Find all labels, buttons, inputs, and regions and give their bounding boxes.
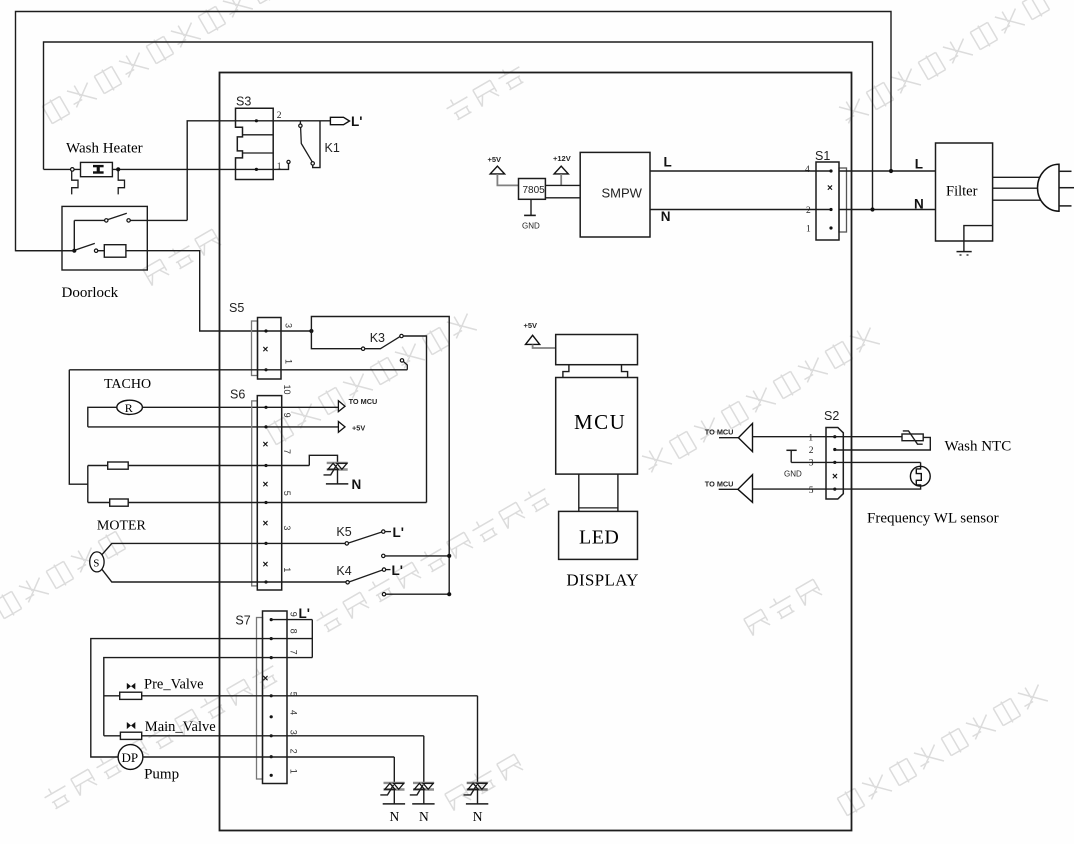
- K4 NC contact: [382, 593, 385, 596]
- svg-text:N: N: [661, 209, 671, 224]
- svg-text:2: 2: [809, 446, 814, 456]
- svg-text:Doorlock: Doorlock: [62, 285, 119, 301]
- pre valve coil: [120, 692, 142, 699]
- S7 pin 9: [270, 618, 273, 621]
- svg-text:1: 1: [289, 769, 299, 774]
- S7 pin 1: [270, 774, 273, 777]
- S6 pin 3: [264, 542, 267, 545]
- S7 pin 5: [270, 694, 273, 697]
- doorlock top switch: [105, 219, 108, 222]
- svg-text:S7: S7: [235, 614, 250, 628]
- node heater left: [71, 168, 75, 172]
- S2 pin 2: [833, 448, 836, 451]
- svg-text:4: 4: [289, 710, 299, 715]
- wire N SMPW to S1: [650, 209, 831, 211]
- S1 pin 1: [829, 226, 832, 229]
- svg-text:8: 8: [289, 629, 299, 634]
- S6 pin 10: [264, 406, 267, 409]
- wire tacho bottom: [88, 426, 339, 428]
- node K5 NC rail: [447, 554, 451, 558]
- svg-text:Pre_Valve: Pre_Valve: [144, 676, 204, 692]
- svg-text:K5: K5: [336, 525, 351, 539]
- svg-text:5: 5: [282, 491, 292, 496]
- svg-text:3: 3: [282, 525, 292, 530]
- WL sensor: [920, 462, 922, 466]
- svg-text:1: 1: [277, 162, 282, 172]
- filter inner notch: [964, 226, 993, 241]
- pump DP: [118, 745, 143, 770]
- wire 5V to 7805: [497, 174, 518, 185]
- svg-text:K3: K3: [370, 331, 385, 345]
- svg-text:DISPLAY: DISPLAY: [566, 571, 638, 590]
- S6 pin 5: [264, 501, 267, 504]
- svg-text:5: 5: [809, 486, 814, 496]
- wire pin3 row: [791, 461, 920, 463]
- svg-text:K1: K1: [325, 141, 340, 155]
- svg-text:3: 3: [289, 730, 299, 735]
- LED box: [559, 511, 638, 559]
- node heater right: [116, 167, 120, 171]
- wire L SMPW to S1: [650, 170, 831, 172]
- svg-text:Main_Valve: Main_Valve: [145, 719, 216, 735]
- GND stub S2 pin3: [786, 449, 796, 451]
- svg-text:9: 9: [289, 612, 299, 617]
- valve symbol Main_Valve: [127, 722, 131, 729]
- wire tacho loop: [88, 407, 117, 427]
- NTC body: [902, 434, 923, 441]
- S3 pin1 stub: [273, 164, 288, 170]
- S3 pin 1: [255, 168, 258, 171]
- wire doorlock coil to S5 pin3: [126, 251, 312, 331]
- heater terminal stub left: [72, 171, 78, 194]
- svg-text:×: ×: [263, 674, 269, 685]
- svg-text:3: 3: [284, 323, 294, 328]
- svg-text:+12V: +12V: [553, 154, 571, 163]
- S2 pin 3: [833, 461, 836, 464]
- svg-text:1: 1: [282, 567, 292, 572]
- svg-text:+5V: +5V: [488, 155, 502, 164]
- wire winding 1: [88, 465, 309, 467]
- svg-text:GND: GND: [522, 222, 540, 231]
- svg-text:1: 1: [806, 225, 811, 235]
- wire motor top lead: [102, 543, 348, 554]
- svg-text:S2: S2: [824, 409, 839, 423]
- doorlock box: [62, 206, 147, 270]
- svg-text:L': L': [393, 525, 404, 540]
- svg-text:TO MCU: TO MCU: [349, 397, 378, 406]
- S7 pin 3: [270, 734, 273, 737]
- svg-text:N: N: [914, 197, 924, 212]
- svg-text:3: 3: [809, 458, 814, 468]
- heater element: [81, 162, 113, 176]
- wire heater row: [44, 168, 81, 170]
- S1 pin 2: [829, 208, 832, 211]
- heater terminal stub right: [118, 171, 124, 194]
- tacho R: [117, 400, 143, 414]
- SMPW box: [580, 152, 650, 237]
- svg-text:N: N: [473, 809, 483, 824]
- wire S1 to filter L: [839, 170, 936, 172]
- node N junction: [870, 207, 874, 211]
- wire pump row: [143, 756, 394, 758]
- svg-text:9: 9: [282, 413, 292, 418]
- svg-text:L': L': [299, 606, 310, 621]
- wire NTC loop: [835, 436, 902, 438]
- wire junction up-right rail: [311, 317, 449, 595]
- wire valve feed (pin7): [104, 658, 312, 736]
- svg-text:TACHO: TACHO: [104, 377, 151, 392]
- wire S5 pin1 row: [69, 369, 407, 371]
- regulator 7805: [519, 179, 546, 200]
- svg-text:DP: DP: [122, 750, 139, 765]
- triac: [413, 782, 434, 784]
- svg-text:10: 10: [282, 385, 292, 395]
- svg-text:GND: GND: [784, 470, 802, 479]
- svg-text:N: N: [419, 809, 429, 824]
- svg-text:Wash Heater: Wash Heater: [66, 141, 143, 157]
- wire doorlock to S3 pin2: [187, 121, 330, 221]
- svg-text:LED: LED: [579, 527, 619, 549]
- svg-text:N: N: [390, 809, 400, 824]
- valve symbol Pre_Valve: [127, 683, 131, 690]
- motor winding tap: [69, 370, 88, 484]
- svg-text:S1: S1: [815, 149, 830, 163]
- wire N loop: [44, 42, 873, 210]
- wire 7805 to SMPW: [545, 184, 580, 186]
- svg-text:S3: S3: [236, 95, 251, 109]
- svg-text:MCU: MCU: [574, 410, 626, 434]
- triac: [467, 782, 488, 784]
- svg-text:×: ×: [827, 183, 833, 194]
- wire pre valve row: [104, 695, 478, 697]
- node K4 NC rail end: [447, 592, 451, 596]
- K3 NC contact: [400, 359, 403, 362]
- svg-text:+5V: +5V: [352, 424, 365, 433]
- wire pump feed (pin8): [91, 639, 312, 757]
- svg-text:Pump: Pump: [144, 767, 179, 783]
- svg-text:×: ×: [263, 439, 269, 450]
- S2 pin 1: [833, 435, 836, 438]
- motor S: [90, 552, 104, 572]
- svg-text:L: L: [915, 157, 923, 172]
- svg-text:S6: S6: [230, 388, 245, 402]
- svg-text:1: 1: [808, 433, 813, 443]
- svg-text:SMPW: SMPW: [602, 186, 643, 201]
- svg-text:7: 7: [282, 449, 292, 454]
- S7 pin 4: [270, 715, 273, 718]
- MCU power header box: [556, 335, 638, 365]
- wire tacho top: [142, 406, 338, 408]
- svg-text:Frequency WL sensor: Frequency WL sensor: [867, 511, 999, 527]
- node S5 pin3 junction: [309, 329, 313, 333]
- svg-text:+5V: +5V: [524, 321, 538, 330]
- wire triac drops: [393, 757, 395, 783]
- S6 pin 9: [264, 425, 267, 428]
- svg-text:Filter: Filter: [946, 184, 978, 200]
- svg-text:1: 1: [284, 359, 294, 364]
- svg-text:N: N: [352, 477, 362, 492]
- K5 NC contact: [382, 554, 385, 557]
- MCU-LED links: [578, 474, 580, 511]
- svg-text:L': L': [351, 114, 362, 129]
- triac: [384, 782, 405, 784]
- wire main valve row: [104, 735, 424, 737]
- svg-text:K4: K4: [336, 564, 351, 578]
- MCU box: [556, 378, 638, 475]
- winding resistor 1: [108, 462, 129, 469]
- board outline: [220, 73, 852, 831]
- S6 pin 1: [264, 580, 267, 583]
- wire junction down to K3: [311, 331, 361, 349]
- filter ground: [963, 241, 965, 252]
- doorlock common node: [72, 249, 76, 253]
- wire winding 2: [88, 502, 427, 504]
- wire pin1: [753, 436, 835, 438]
- wire S6 pin7 to triac: [309, 455, 337, 465]
- S7 pin 2: [270, 755, 273, 758]
- header-MCU necks: [563, 365, 569, 378]
- svg-text:MOTER: MOTER: [97, 519, 147, 534]
- Filter box: [936, 143, 993, 241]
- svg-text:R: R: [125, 401, 133, 415]
- svg-text:4: 4: [805, 165, 810, 175]
- svg-text:×: ×: [263, 559, 269, 570]
- svg-text:Wash NTC: Wash NTC: [945, 439, 1012, 455]
- S6 pin 7: [264, 464, 267, 467]
- svg-text:L: L: [664, 155, 672, 170]
- svg-text:2: 2: [277, 111, 282, 121]
- svg-text:S5: S5: [229, 301, 244, 315]
- S2 pin 5: [833, 488, 836, 491]
- doorlock coil: [104, 245, 126, 258]
- S5 pin 1: [264, 368, 267, 371]
- svg-text:TO MCU: TO MCU: [705, 428, 734, 437]
- S7 pin 7: [270, 656, 273, 659]
- wire S1 to filter N: [839, 209, 936, 211]
- arrow TO MCU (S6): [338, 401, 345, 412]
- wire L-prime bus: [271, 619, 312, 621]
- wire motor bottom lead: [102, 569, 349, 582]
- svg-text:L': L': [392, 563, 403, 578]
- svg-text:×: ×: [263, 479, 269, 490]
- svg-text:×: ×: [263, 345, 269, 356]
- L-prime tag top: [330, 117, 349, 124]
- node L junction: [889, 169, 893, 173]
- svg-text:7: 7: [289, 650, 299, 655]
- svg-text:7805: 7805: [523, 185, 546, 196]
- svg-text:TO MCU: TO MCU: [705, 479, 734, 488]
- doorlock inner wires: [74, 219, 104, 221]
- main valve coil: [120, 732, 141, 739]
- svg-text:2: 2: [289, 749, 299, 754]
- winding resistor 2: [110, 499, 129, 506]
- wire outer L loop: [16, 12, 892, 251]
- svg-text:×: ×: [832, 471, 838, 482]
- S5 pin 3: [264, 329, 267, 332]
- S3 pin 2: [255, 119, 258, 122]
- doorlock bottom switch: [76, 243, 95, 250]
- svg-text:2: 2: [806, 206, 811, 216]
- wires filter to plug: [993, 176, 1043, 178]
- NTC strike: [903, 431, 923, 444]
- arrow +5V (S6): [338, 422, 345, 433]
- svg-text:×: ×: [263, 518, 269, 529]
- ground 7805: [530, 199, 532, 215]
- mains plug: [1038, 164, 1059, 211]
- wire pin5: [753, 488, 835, 490]
- triac: [327, 462, 348, 464]
- svg-text:S: S: [93, 558, 99, 570]
- S1 pin 4: [829, 169, 832, 172]
- S7 pin 8: [270, 637, 273, 640]
